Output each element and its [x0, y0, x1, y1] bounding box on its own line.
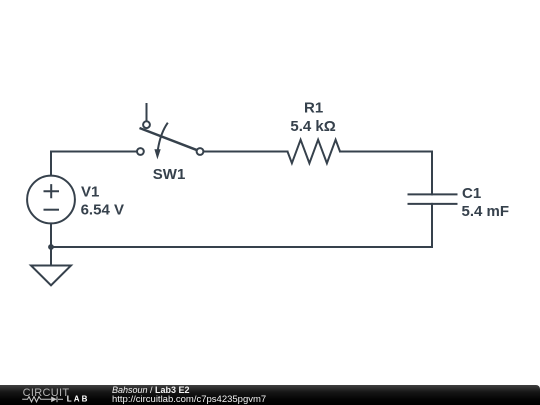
- wire resistor to capacitor (top-right corner): [340, 152, 432, 195]
- wire capacitor bottom down: [431, 204, 433, 247]
- footer bar: [0, 385, 540, 405]
- svg-text:R1: R1: [304, 99, 323, 116]
- svg-text:6.54 V: 6.54 V: [81, 201, 124, 218]
- resistor R1: [288, 140, 341, 164]
- capacitor C1: [408, 194, 458, 204]
- switch SW1: [137, 103, 203, 159]
- svg-text:5.4 kΩ: 5.4 kΩ: [290, 118, 335, 135]
- svg-text:5.4 mF: 5.4 mF: [462, 203, 510, 220]
- footer meta text: [111, 383, 113, 385]
- svg-text:V1: V1: [81, 184, 99, 201]
- wire top-left from V1 to switch: [51, 152, 137, 176]
- svg-text:LAB: LAB: [67, 394, 90, 403]
- wire switch to resistor: [203, 151, 287, 153]
- wire bottom return: [51, 246, 432, 248]
- CircuitLab logo: [0, 384, 110, 405]
- node junction: [48, 244, 54, 250]
- svg-text:C1: C1: [462, 185, 481, 202]
- wire V1 bottom to ground: [50, 223, 52, 264]
- ground: [31, 266, 71, 286]
- svg-text:SW1: SW1: [153, 166, 186, 183]
- voltage source V1: [27, 176, 75, 224]
